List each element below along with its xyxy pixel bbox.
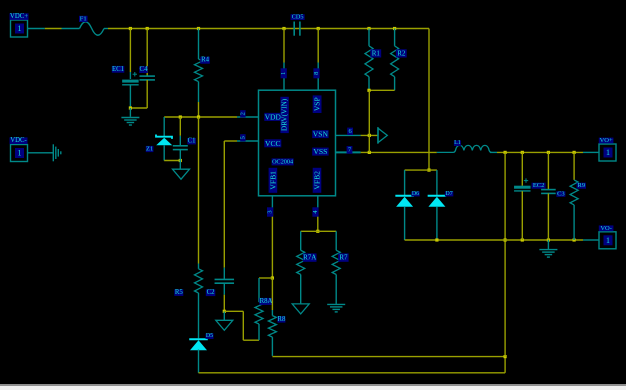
svg-text:VSN: VSN [313, 130, 329, 139]
junction pin7/R1R2 drop [368, 151, 371, 154]
connector VDC- port [11, 145, 28, 162]
junction pin2/C1 [179, 115, 182, 118]
svg-text:VFB1: VFB1 [268, 171, 277, 190]
label EC2 [532, 182, 546, 189]
resistor R7 [332, 250, 340, 274]
svg-text:EC1: EC1 [112, 66, 124, 73]
wire R1 top pin [368, 29, 370, 46]
wire R1R2 drop to pin7 [368, 90, 370, 152]
svg-text:F1: F1 [80, 15, 87, 22]
pin name VFB2 [313, 168, 322, 193]
resistor R9 [570, 180, 578, 205]
inductor L1 [437, 145, 492, 152]
wire top rail y28 [104, 28, 429, 30]
resistor R2 [391, 46, 399, 77]
label D5 [206, 333, 214, 339]
pin number 2 [239, 110, 246, 117]
pin number 7 [347, 146, 353, 154]
resistor R1 [365, 46, 373, 77]
svg-text:VO-: VO- [600, 225, 612, 232]
ground arrow below C1 [173, 169, 190, 179]
svg-text:VCC: VCC [265, 139, 281, 148]
junction out x505 [504, 151, 507, 154]
wire R1 bottom [368, 77, 370, 91]
junction R8 rail x505 [504, 355, 507, 358]
label C3 [556, 191, 565, 198]
svg-text:D6: D6 [412, 191, 419, 197]
pin name VSN [312, 130, 328, 139]
label R8 [277, 316, 286, 323]
label R2 [396, 49, 407, 57]
svg-text:3: 3 [267, 210, 274, 213]
diode D7 [428, 196, 447, 207]
label R4 [200, 57, 210, 64]
wire EC2 bottom [521, 191, 523, 240]
wire R7 bottom [335, 275, 337, 304]
svg-text:R7A: R7A [303, 254, 316, 262]
svg-text:1: 1 [18, 149, 22, 158]
resistor R8 [268, 316, 276, 338]
svg-text:1: 1 [280, 72, 287, 75]
junction top rail pin1 [282, 27, 285, 30]
label F1 [79, 15, 88, 22]
junction top rail pin8 [317, 27, 320, 30]
wire EC1-C4 bottom link [130, 107, 147, 109]
junction EC1 bottom [129, 106, 132, 109]
wire out drop x505 [504, 152, 506, 356]
wire pin6 net [336, 134, 379, 136]
wire R5 to D5 [198, 293, 200, 338]
pin number 4 [312, 207, 319, 216]
wire D5 bottom rail y373 [199, 372, 506, 374]
zener Z1 [156, 135, 172, 146]
wire pin4 crossbar [301, 230, 337, 232]
pin number 1 [280, 68, 287, 78]
capacitor C3 [541, 190, 556, 194]
wire D6 top [404, 170, 406, 196]
wire R2 top pin [394, 29, 396, 46]
op-amp U1 OC2004 body [259, 90, 336, 196]
wire Z1 bottom [163, 145, 165, 160]
junction pin4 split [316, 230, 319, 233]
svg-text:R8A: R8A [260, 298, 273, 305]
svg-text:D7: D7 [445, 191, 452, 197]
svg-text:C2: C2 [207, 289, 216, 296]
junction C2 bottom [223, 310, 226, 313]
junction pin6/R1R2 [368, 134, 371, 137]
wire L1 to VO+ [490, 151, 599, 153]
svg-text:VSP: VSP [313, 97, 322, 111]
svg-text:R1: R1 [372, 49, 381, 57]
ground arrow below C2 [216, 320, 233, 330]
resistor R4 [195, 59, 203, 82]
label R5 [174, 289, 183, 296]
polarity + EC2 [524, 178, 528, 182]
junction C1 bottom [179, 159, 182, 162]
capacitor EC1 [122, 80, 138, 85]
junction top rail EC1 [129, 27, 132, 30]
wire C3 top [547, 152, 549, 189]
capacitor C4 [139, 76, 155, 80]
pin number 8 [313, 68, 320, 78]
wire pin3 to R8 [271, 278, 273, 316]
connector VO- port [599, 232, 616, 249]
connector VO+ port [599, 144, 616, 161]
resistor R7A [297, 250, 305, 274]
label R7 [338, 253, 348, 261]
wire D6 bottom [404, 207, 406, 240]
junction out EC2 [521, 151, 524, 154]
window bottom border [0, 384, 626, 386]
ground earth below R7 [327, 304, 345, 312]
junction pin3 split [271, 276, 274, 279]
label VO+ [599, 137, 614, 144]
wire pin1 drop [283, 29, 285, 91]
wire R8A bottom [258, 324, 260, 340]
capacitor C2 [215, 279, 235, 283]
junction bottom D7 [435, 238, 438, 241]
wire C2 bottom [223, 283, 225, 311]
wire bottom rail y240 [405, 239, 599, 241]
wire pin3 to R8A [259, 278, 272, 302]
wire R7A top [300, 231, 302, 250]
junction bottom R9 [573, 238, 576, 241]
svg-text:C4: C4 [140, 66, 149, 73]
diode D6 [395, 196, 414, 207]
label R9 [577, 182, 586, 189]
label VO- [599, 225, 614, 232]
wire pin5 drop x224 [223, 141, 225, 279]
ground earth output [539, 250, 557, 258]
wire pin2 net y117 [164, 116, 258, 118]
wire R4 bottom [198, 82, 200, 117]
diode D5 [189, 339, 208, 350]
part number OC2004 [272, 158, 294, 165]
wire R7A bottom [300, 275, 302, 304]
capacitor C1 [173, 146, 188, 150]
wire pin7 net [336, 151, 437, 153]
wire R4 top pin [198, 29, 200, 60]
junction top rail C4 [146, 27, 149, 30]
wire VDC+ to F1 [28, 28, 80, 30]
wire pin4 stub [317, 196, 319, 232]
resistor R5 [195, 269, 203, 293]
label D7 [445, 191, 453, 197]
polarity + EC1 [133, 72, 137, 76]
wire R5 top [198, 117, 200, 269]
svg-text:CD5: CD5 [292, 14, 304, 21]
pin name VDD [264, 112, 281, 121]
label R8A [259, 298, 272, 305]
label VDC+ [10, 13, 29, 20]
svg-text:OC2004: OC2004 [272, 158, 293, 165]
window bottom strip [0, 386, 626, 390]
wire pin3 stub [271, 196, 273, 278]
junction top rail R4 [197, 27, 200, 30]
label R1 [370, 49, 381, 57]
wire C2 to R8A staircase [224, 311, 259, 340]
pin number 3 [267, 207, 274, 216]
label VDC- [10, 137, 28, 144]
junction diode box top [427, 169, 430, 172]
svg-text:VDD: VDD [265, 112, 282, 121]
junction bottom EC2 [521, 238, 524, 241]
label CD5 [291, 14, 305, 21]
junction out R9 [573, 151, 576, 154]
junction bottom C3 [547, 238, 550, 241]
wire EC1 bottom [129, 86, 131, 109]
fuse F1 [80, 22, 105, 36]
svg-text:R9: R9 [578, 182, 586, 189]
wire D5 rail up to junction [504, 357, 506, 373]
wire VDC- to ground [28, 152, 54, 154]
pin name DRV(VIN) [280, 97, 288, 133]
svg-text:R2: R2 [397, 49, 406, 57]
svg-text:VFB2: VFB2 [313, 171, 322, 190]
svg-text:R5: R5 [175, 289, 184, 296]
resistor R8A [255, 302, 263, 324]
wire D7 top [436, 170, 438, 196]
wire C4 bottom [146, 80, 148, 108]
wire rail right drop x429 [428, 29, 430, 171]
ground earth below EC1 [121, 118, 139, 126]
svg-text:VDC+: VDC+ [10, 13, 28, 20]
capacitor CD5 [294, 22, 300, 36]
label C1 [187, 138, 196, 145]
label EC1 [112, 66, 125, 73]
wire R2 bottom [394, 77, 396, 91]
svg-text:1: 1 [606, 236, 610, 245]
wire pin8 drop [317, 29, 319, 91]
wire gnd stub below C3 [547, 240, 549, 249]
svg-text:8: 8 [313, 72, 320, 75]
wire C1 to ground [179, 150, 181, 170]
pin number 5 [239, 134, 246, 141]
wire C2 gnd stub [223, 311, 225, 320]
wire R7 top [335, 231, 337, 250]
svg-text:L1: L1 [454, 140, 461, 146]
svg-text:DRV(VIN): DRV(VIN) [281, 98, 289, 131]
svg-text:5: 5 [239, 136, 246, 139]
svg-text:EC2: EC2 [533, 182, 545, 189]
junction top rail R2 [393, 27, 396, 30]
svg-text:R8: R8 [277, 316, 286, 323]
svg-text:VO+: VO+ [600, 137, 613, 144]
label Z1 [146, 146, 154, 153]
wire EC1 to ground [129, 108, 131, 117]
svg-text:VSS: VSS [313, 147, 327, 156]
wire pin5 net y141 [224, 140, 258, 142]
wire R9 top [573, 152, 575, 180]
ground earth rotated VDC- [53, 144, 61, 161]
pin name VSS [312, 147, 328, 156]
wire Z1 top [163, 117, 165, 137]
label C4 [139, 66, 148, 73]
junction x505 bottom rail [504, 238, 507, 241]
wire C1 top [179, 117, 181, 146]
svg-text:1: 1 [606, 148, 610, 157]
wire R9 bottom [573, 205, 575, 240]
junction top rail R1 [367, 27, 370, 30]
svg-text:C1: C1 [188, 138, 196, 145]
sheet-entry arrow pin6 [378, 127, 387, 143]
label R7A [303, 253, 317, 261]
wire EC2 top [521, 152, 523, 185]
wire C4 top [146, 29, 148, 77]
label D6 [411, 191, 419, 197]
pin name VSP [313, 95, 322, 113]
capacitor EC2 [514, 186, 531, 191]
wire D5 bottom [198, 350, 200, 373]
junction pin2/R4R5 [197, 115, 200, 118]
wire EC1 top [129, 29, 131, 80]
svg-text:R4: R4 [201, 57, 210, 64]
junction out C3 [547, 151, 550, 154]
label C2 [206, 289, 216, 296]
label L1 [454, 140, 461, 146]
wire D7 bottom [436, 207, 438, 240]
pin number 6 [347, 128, 353, 135]
svg-text:C3: C3 [557, 191, 565, 198]
svg-text:2: 2 [239, 112, 246, 115]
svg-text:R7: R7 [339, 254, 348, 262]
svg-text:Z1: Z1 [146, 146, 153, 153]
ground arrow below R7A [292, 304, 309, 314]
connector VDC+ port [11, 20, 28, 37]
svg-text:1: 1 [18, 24, 22, 33]
pin name VFB1 [268, 168, 277, 193]
wire C3 bottom [547, 193, 549, 240]
svg-text:VDC-: VDC- [10, 137, 27, 144]
svg-text:D5: D5 [206, 333, 213, 339]
wire R1R2 bottom link [369, 89, 395, 91]
wire Z1-C1 bottom link [164, 160, 180, 162]
pin name VCC [264, 139, 281, 148]
junction R1 bottom [367, 89, 370, 92]
wire R8 bottom [272, 337, 505, 357]
wire diode box top [405, 169, 437, 171]
